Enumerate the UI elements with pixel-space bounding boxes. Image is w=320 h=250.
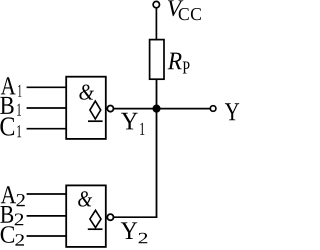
terminal VCC bbox=[153, 1, 159, 7]
label net Y2 bbox=[121, 222, 148, 243]
label net Y1 bbox=[121, 113, 144, 135]
label input C2 bbox=[1, 226, 24, 245]
gate U1 qualifier ampersand bbox=[79, 85, 94, 100]
wire node to terminal Y bbox=[157, 108, 211, 110]
gate U2 open-collector underline bbox=[88, 228, 103, 230]
wire gate U1 output to node bbox=[114, 108, 157, 110]
gate U2 body AND bbox=[66, 185, 106, 247]
gate U1 body AND bbox=[66, 77, 106, 139]
wire input B2 bbox=[27, 215, 67, 217]
node junction wired-AND bbox=[152, 105, 160, 113]
terminal Y bbox=[210, 106, 216, 112]
wire input A1 bbox=[27, 86, 67, 88]
label input B1 bbox=[0, 97, 21, 116]
gate U2 output bubble bbox=[107, 214, 113, 220]
gate U1 open-collector diamond bbox=[90, 101, 101, 119]
wire resistor RP down through node to Y2 corner bbox=[156, 79, 158, 217]
label input A2 bbox=[1, 186, 25, 206]
gate U1 open-collector underline bbox=[88, 120, 103, 122]
gate U2 qualifier ampersand bbox=[78, 191, 92, 206]
gate U2 open-collector diamond bbox=[90, 210, 101, 227]
label Y bbox=[225, 103, 239, 120]
resistor RP bbox=[150, 40, 164, 80]
wire gate U2 output to rail bbox=[114, 216, 157, 218]
gate U1 output bubble bbox=[107, 106, 113, 112]
wire input C2 bbox=[27, 235, 67, 237]
label VCC bbox=[168, 0, 201, 20]
label RP bbox=[168, 53, 190, 74]
wire input B1 bbox=[27, 107, 67, 109]
wire input A2 bbox=[27, 193, 67, 195]
wire input C1 bbox=[27, 128, 67, 130]
label input C1 bbox=[0, 117, 21, 137]
label input B2 bbox=[0, 206, 23, 225]
wire VCC terminal to resistor RP bbox=[155, 8, 157, 40]
label input A1 bbox=[1, 77, 22, 97]
